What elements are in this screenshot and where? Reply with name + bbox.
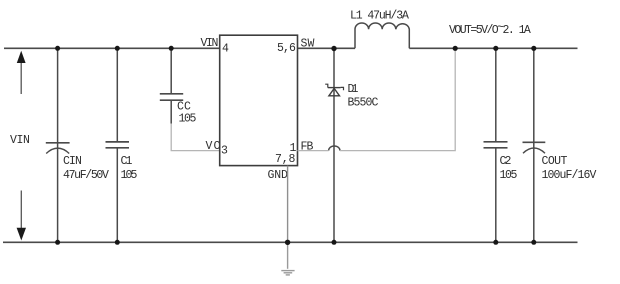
svg-text:B550C: B550C	[348, 97, 379, 110]
svg-text:VC: VC	[206, 140, 221, 153]
pin label FB	[301, 141, 314, 154]
svg-text:3: 3	[221, 145, 228, 158]
svg-text:105: 105	[179, 113, 197, 126]
wire top rail SW segment (IC SW to inductor)	[298, 47, 356, 49]
capacitor COUT reference label	[542, 155, 568, 168]
wire top rail left segment (input rail)	[4, 47, 220, 49]
svg-text:100uF/16V: 100uF/16V	[542, 169, 597, 182]
capacitor C2 value label	[500, 169, 518, 182]
wire hop where diode wire crosses FB net	[329, 146, 340, 151]
svg-text:SW: SW	[301, 38, 315, 51]
capacitor CC wire upper	[170, 48, 172, 94]
svg-text:VIN: VIN	[201, 37, 218, 50]
wire VC net gray (CC to VC pin)	[171, 124, 220, 151]
VIN polarity down arrow	[17, 191, 26, 241]
pin label SW	[301, 38, 315, 51]
pin number 4	[222, 43, 229, 56]
op-amp U1 regulator IC body	[220, 35, 298, 165]
capacitor C1 value label	[121, 169, 138, 182]
capacitor COUT value label	[542, 169, 597, 182]
pin number 3	[221, 145, 228, 158]
svg-text:47uF/50V: 47uF/50V	[63, 169, 109, 182]
capacitor CIN value label	[63, 169, 109, 182]
capacitor CC plates	[160, 94, 183, 100]
svg-text:C2: C2	[500, 155, 512, 168]
svg-text:FB: FB	[301, 141, 314, 154]
capacitor C2 wire lower	[495, 148, 497, 243]
svg-text:4: 4	[222, 43, 229, 56]
capacitor C2 reference label	[500, 155, 512, 168]
svg-text:VIN: VIN	[10, 134, 29, 147]
node junction dots bottom rail	[55, 240, 536, 245]
node VOUT label	[449, 22, 531, 38]
svg-text:C1: C1	[121, 155, 133, 168]
diode D1 schottky symbol	[325, 84, 343, 96]
capacitor C1 wire lower	[116, 148, 118, 243]
VIN polarity up arrow	[17, 51, 26, 94]
capacitor C1 reference label	[121, 155, 133, 168]
capacitor CIN electrolytic plates	[46, 143, 70, 154]
svg-text:COUT: COUT	[542, 155, 568, 168]
capacitor C1 plates	[106, 142, 130, 148]
capacitor CIN reference label	[63, 155, 81, 168]
inductor L1	[355, 23, 409, 48]
capacitor COUT wire	[533, 48, 535, 242]
wire FB net gray (FB pin to output node)	[298, 48, 456, 150]
VIN label (input voltage)	[10, 134, 29, 147]
pin number 5,6	[277, 42, 296, 55]
svg-text:105: 105	[121, 169, 138, 182]
inductor L1 label	[350, 10, 409, 23]
wire SW node to diode and bottom rail	[333, 48, 335, 242]
pin number 7,8	[275, 153, 295, 166]
capacitor C1 wire upper	[116, 48, 118, 142]
capacitor CC reference label	[177, 101, 191, 114]
svg-text:D1: D1	[348, 83, 359, 96]
node junction dots top rail	[55, 46, 536, 52]
svg-text:GND: GND	[268, 169, 288, 182]
capacitor C2 wire upper	[495, 48, 497, 142]
pin label VC	[206, 140, 221, 153]
svg-text:5,6: 5,6	[277, 42, 296, 55]
svg-text:105: 105	[500, 169, 518, 182]
capacitor COUT electrolytic plates	[523, 142, 546, 153]
wire bottom rail (ground rail)	[3, 241, 578, 243]
ground	[281, 242, 294, 275]
capacitor CC wire lower	[170, 100, 172, 123]
wire top rail output segment (inductor to right end)	[409, 47, 577, 49]
capacitor CIN wire	[57, 48, 59, 242]
diode D1 reference label	[348, 83, 359, 96]
diode D1 value label	[348, 97, 379, 110]
capacitor CC value label	[179, 113, 197, 126]
capacitor C2 plates	[484, 142, 508, 148]
pin number 1	[290, 142, 297, 155]
svg-text:CIN: CIN	[63, 155, 81, 168]
svg-text:L1 47uH/3A: L1 47uH/3A	[350, 10, 409, 23]
svg-text:VOUT=5V/O~2. 1A: VOUT=5V/O~2. 1A	[449, 22, 531, 38]
pin label GND	[268, 169, 288, 182]
svg-text:7,8: 7,8	[275, 153, 295, 166]
pin label VIN (IC pin 4 name)	[201, 37, 218, 50]
wire GND pin to bottom rail	[287, 166, 289, 243]
